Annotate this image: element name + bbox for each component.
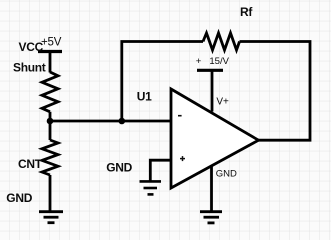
junction node A <box>47 118 54 125</box>
svg-text:GND: GND <box>6 191 32 205</box>
ground symbol bottom <box>200 212 222 223</box>
wire ground to non-inverting input <box>150 160 171 181</box>
ground symbol middle <box>140 181 162 194</box>
svg-text:VCC: VCC <box>19 40 44 54</box>
wire GND pin down <box>210 165 213 212</box>
wire feedback: node B up and right to Rf <box>122 42 203 122</box>
junction node B <box>119 118 126 125</box>
svg-text:+5V: +5V <box>41 37 62 49</box>
pin label minus input <box>178 115 182 117</box>
svg-text:Rf: Rf <box>240 5 253 19</box>
svg-text:GND: GND <box>216 169 237 180</box>
wire +15V bar to V+ pin <box>211 70 214 111</box>
wire node A to inverting input <box>50 120 171 123</box>
svg-text:U1: U1 <box>137 89 152 103</box>
pin label plus input <box>180 156 185 161</box>
power symbol +15V bar <box>197 69 223 72</box>
wire node A to CNT resistor <box>49 121 52 140</box>
svg-text:GND: GND <box>106 160 132 174</box>
power symbol VCC +5V bar <box>38 50 62 53</box>
wire VCC bar to shunt resistor <box>49 52 52 73</box>
svg-text:CNT: CNT <box>18 157 43 171</box>
resistor Shunt <box>42 72 58 112</box>
svg-text:V+: V+ <box>216 97 229 108</box>
op-amp U1 <box>171 89 259 188</box>
wire CNT resistor to ground <box>49 175 52 212</box>
svg-text:Shunt: Shunt <box>13 60 46 74</box>
resistor Rf <box>203 33 240 50</box>
wire Rf right, down and to op-amp output <box>240 42 311 141</box>
svg-text:+: + <box>196 56 202 67</box>
svg-text:15/V: 15/V <box>209 56 229 67</box>
ground symbol left <box>39 212 63 223</box>
wire shunt resistor to node A <box>49 112 52 121</box>
resistor CNT <box>42 140 58 175</box>
